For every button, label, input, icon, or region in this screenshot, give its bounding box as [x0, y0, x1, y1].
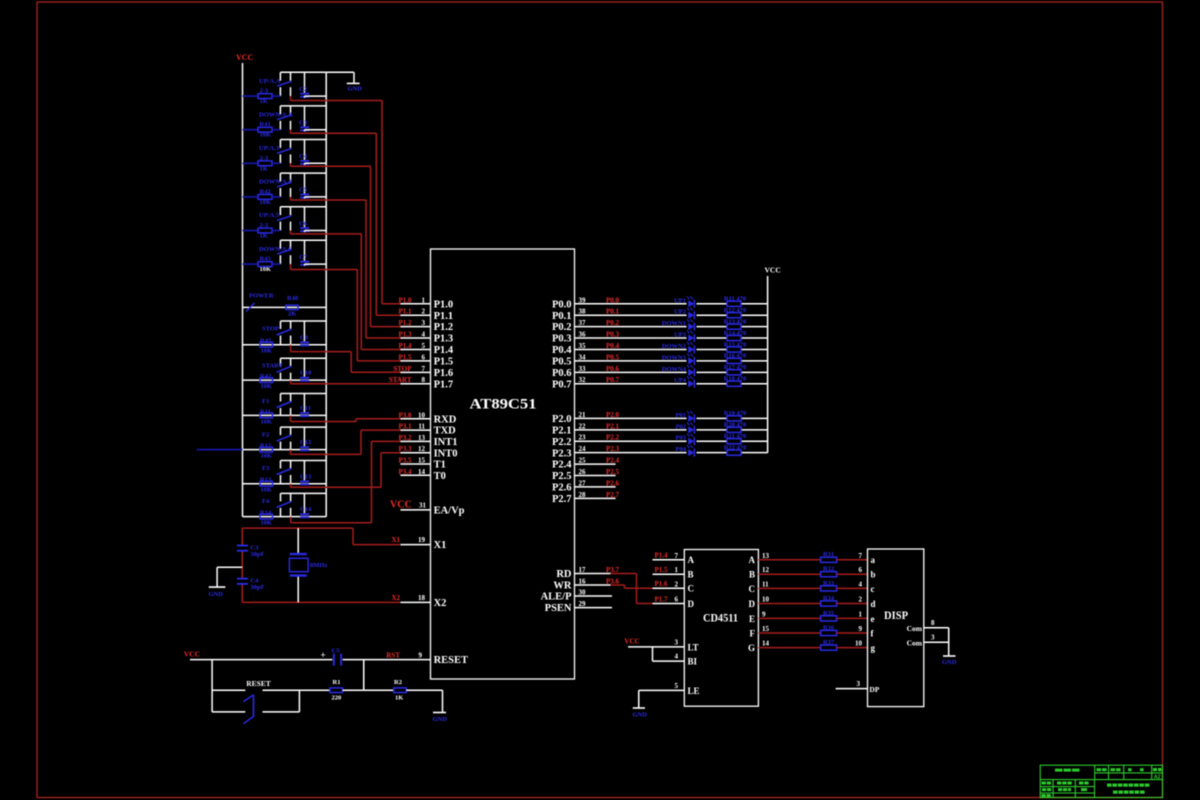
svg-text:5: 5 — [675, 682, 679, 690]
wire - P0.7 row to VCC rail — [575, 383, 768, 385]
svg-text:e: e — [871, 614, 875, 624]
wire - P2.7 stub — [575, 497, 616, 499]
svg-text:C6: C6 — [299, 220, 308, 227]
wire - red net from row 4 switch to MCU pin P1.3 — [291, 197, 404, 338]
svg-text:220: 220 — [332, 695, 342, 702]
svg-text:UP1: UP1 — [674, 297, 686, 304]
svg-text:POWER: POWER — [249, 293, 274, 300]
svg-text:P2.0: P2.0 — [552, 414, 572, 425]
wire - row1 top to ground drop — [326, 72, 354, 83]
svg-text:P1.4: P1.4 — [398, 342, 412, 350]
svg-text:RESET: RESET — [246, 679, 271, 688]
svg-text:6: 6 — [422, 353, 426, 361]
resistor R1 220 — [330, 679, 364, 702]
svg-text:2K: 2K — [288, 311, 296, 318]
svg-text:P3.2: P3.2 — [398, 434, 412, 442]
svg-text:P1.5: P1.5 — [434, 357, 454, 368]
capacitor C4 (debounce, row 3) — [299, 140, 326, 165]
svg-text:DP: DP — [869, 685, 879, 694]
capacitor C3 30pF (top) — [237, 544, 265, 558]
svg-text:10: 10 — [418, 411, 426, 419]
pin 17 RD of U1 — [556, 566, 619, 580]
svg-text:4: 4 — [675, 653, 679, 661]
pin 24 P2.3 of U1 — [552, 445, 620, 459]
wire - P0.2 row to VCC rail — [575, 326, 768, 328]
svg-text:P1.1: P1.1 — [434, 311, 454, 322]
wire - ground tap from crystal caps — [217, 567, 242, 587]
svg-text:T1: T1 — [434, 460, 446, 471]
wire - left VCC bus vertical — [242, 63, 244, 517]
svg-text:X1: X1 — [434, 540, 447, 551]
pin 36 P0.3 of U1 — [552, 331, 620, 345]
svg-text:A: A — [749, 555, 756, 565]
svg-text:3: 3 — [857, 680, 861, 688]
svg-text:P0.4: P0.4 — [552, 345, 572, 356]
svg-text:P3.5: P3.5 — [398, 457, 412, 465]
svg-text:P3.3: P3.3 — [398, 445, 412, 453]
wire - P0.0 row to VCC rail — [575, 303, 768, 305]
svg-text:INT0: INT0 — [434, 448, 458, 459]
svg-text:8: 8 — [422, 376, 426, 384]
wire - red net from row 10 (F1) to MCU — [291, 415, 403, 421]
resistor R22 470 — [724, 444, 747, 455]
svg-text:VCC: VCC — [236, 53, 254, 62]
pin 32 P0.7 of U1 — [552, 376, 620, 390]
svg-text:F3: F3 — [262, 465, 270, 472]
driver U2 CD4511 body — [684, 550, 758, 707]
pin 38 P0.1 of U1 — [552, 308, 620, 322]
svg-text:E: E — [749, 614, 755, 624]
pin 2 segment d of DISP — [859, 596, 876, 609]
svg-text:P1.6: P1.6 — [654, 580, 668, 588]
svg-text:C11: C11 — [300, 405, 311, 412]
svg-text:C13: C13 — [300, 473, 312, 480]
resistor R11 470 — [724, 296, 746, 307]
switch S3 (UP/A.3) with pull-up resistor and debounce cap, ladder row 3 — [243, 140, 327, 173]
pin 18 X2 of U1 — [391, 594, 446, 609]
LED D6 (DOWN3) — [662, 353, 695, 365]
wire - red net from row 2 switch to MCU pin P1.1 — [291, 130, 404, 316]
pin 7 segment a of DISP — [859, 552, 876, 565]
svg-text:b: b — [871, 570, 876, 580]
svg-text:Com: Com — [907, 638, 923, 647]
switch S1 (UP/A.A) with pull-up resistor and debounce cap, ladder row 1 — [243, 72, 327, 105]
wire - P2.3 row to VCC rail — [575, 452, 768, 454]
svg-text:P1.2: P1.2 — [398, 319, 412, 327]
svg-text:18: 18 — [418, 594, 426, 602]
pin 10 RXD of U1 — [398, 411, 456, 425]
svg-text:START: START — [262, 363, 284, 370]
pin 15 F output of U2 — [750, 625, 770, 638]
LED D8 (UP4) — [674, 376, 694, 388]
ground symbol (crystal) — [209, 587, 226, 598]
ground symbol (CD4511 LE) — [633, 708, 648, 719]
pin 11 C output of U2 — [749, 580, 770, 593]
switch S6 (DOWN/A.6) with pull-up resistor and debounce cap, ladder row 6 — [243, 240, 327, 273]
wire - crystal loop left vertical with caps — [241, 528, 243, 602]
svg-text:P2.5: P2.5 — [552, 471, 572, 482]
svg-text:R11: R11 — [260, 408, 271, 415]
wire - P2.5 stub — [575, 475, 616, 477]
op-amp n/a - MCU U1 AT89C51 body — [431, 249, 575, 679]
svg-text:Com: Com — [907, 624, 923, 633]
svg-text:10: 10 — [762, 596, 770, 604]
resistor R34 (segment d) — [758, 595, 867, 606]
LED D10 (P02) — [676, 422, 695, 434]
svg-text:30: 30 — [579, 589, 587, 597]
svg-text:1: 1 — [675, 566, 679, 574]
svg-text:ALE/P: ALE/P — [541, 592, 573, 603]
svg-text:7: 7 — [675, 552, 679, 560]
svg-text:2: 2 — [675, 580, 679, 588]
svg-text:GND: GND — [348, 86, 363, 93]
svg-text:R40: R40 — [287, 295, 298, 302]
svg-text:12: 12 — [418, 445, 426, 453]
svg-text:3: 3 — [422, 319, 426, 327]
svg-text:P2.7: P2.7 — [552, 494, 572, 505]
svg-text:1: 1 — [859, 610, 863, 618]
pin 13 A output of U2 — [749, 552, 770, 565]
svg-text:P1.2: P1.2 — [434, 322, 454, 333]
svg-text:7: 7 — [422, 365, 426, 373]
LED D9 (P01) — [676, 411, 695, 423]
svg-text:5: 5 — [422, 342, 426, 350]
resistor R35 (segment e) — [758, 610, 867, 621]
wire - P2.1 row to VCC rail — [575, 429, 768, 431]
svg-text:RXD: RXD — [434, 414, 457, 425]
wire - P0.4 row to VCC rail — [575, 348, 768, 350]
wire - red net from row 3 switch to MCU pin P1.2 — [291, 163, 404, 326]
svg-text:VCC: VCC — [624, 638, 639, 646]
svg-text:DOWN/A.A: DOWN/A.A — [259, 111, 293, 118]
switch F1 with resistor R11 and capacitor C11, ladder row 10 — [243, 394, 327, 426]
pin 28 P2.7 of U1 — [552, 491, 620, 505]
resistor R37 (segment g) — [758, 639, 867, 650]
svg-text:C7: C7 — [299, 254, 308, 261]
wire - junction up to RST line — [364, 660, 394, 691]
svg-text:D: D — [749, 599, 756, 609]
pin 27 P2.6 of U1 — [552, 479, 620, 493]
power label VCC (LED rail) — [765, 266, 781, 275]
wire - red net from row 13 (F4) to MCU — [291, 441, 403, 522]
capacitor C5 (electrolytic, reset) — [321, 648, 343, 666]
svg-text:R14: R14 — [260, 510, 272, 517]
svg-text:C4: C4 — [299, 153, 308, 160]
svg-text:DOWN3: DOWN3 — [662, 354, 687, 361]
pin 21 P2.0 of U1 — [552, 411, 620, 425]
svg-text:P1.5: P1.5 — [398, 353, 412, 361]
pin 33 P0.6 of U1 — [552, 365, 620, 379]
pin 4 P1.3 of U1 — [398, 331, 453, 345]
wire - crystal loop bottom (red) to X2 pin 18 — [242, 601, 400, 603]
ground symbol (top of ladder) — [347, 83, 362, 92]
capacitor C12 (row 11) — [300, 427, 311, 451]
capacitor C13 (row 12) — [300, 461, 312, 486]
svg-text:10K: 10K — [261, 487, 273, 494]
svg-text:P3.1: P3.1 — [398, 423, 412, 431]
pin 9 RESET of U1 — [419, 652, 469, 667]
svg-text:DOWN1: DOWN1 — [662, 320, 686, 327]
svg-text:R45: R45 — [260, 338, 272, 345]
svg-text:RD: RD — [556, 569, 572, 580]
wire - X1 branch to pin 19 — [353, 528, 400, 545]
svg-text:9: 9 — [762, 610, 766, 618]
pin 12 INT0 of U1 — [398, 445, 457, 459]
pin 7 P1.6 of U1 — [393, 365, 453, 379]
svg-text:VCC: VCC — [765, 266, 781, 275]
pin 5 LE of U2 — [639, 682, 700, 708]
pin 16 WR of U1 — [553, 578, 619, 592]
svg-text:P1.3: P1.3 — [398, 331, 412, 339]
resistor R2 1K — [394, 679, 443, 702]
wire - red net from row 1 switch to MCU pin P1.0 — [291, 96, 404, 304]
svg-text:10K: 10K — [261, 418, 273, 425]
LED D4 (UP3) — [674, 331, 694, 343]
svg-text:P03: P03 — [676, 435, 687, 442]
wire - red net from row 11 (F2) to MCU — [291, 430, 403, 454]
pin 3 Com of DISP (second) — [907, 634, 949, 648]
ground symbol (DISP common) — [942, 656, 957, 666]
svg-text:15: 15 — [762, 625, 770, 633]
svg-text:8: 8 — [931, 619, 935, 627]
capacitor C7 (debounce, row 6) — [299, 240, 326, 265]
svg-text:DOWN/A.6: DOWN/A.6 — [259, 246, 292, 253]
LED D7 (DOWN4) — [662, 365, 695, 377]
switch STOP with resistor R45 and capacitor C9, ladder row 8 — [243, 321, 327, 355]
svg-text:11: 11 — [762, 580, 769, 588]
pin 34 P0.5 of U1 — [552, 353, 620, 367]
svg-text:10K: 10K — [261, 348, 273, 355]
resistor R36 (segment f) — [758, 624, 867, 635]
svg-text:10K: 10K — [261, 453, 273, 460]
svg-text:13: 13 — [762, 552, 770, 560]
svg-text:C2: C2 — [299, 86, 307, 93]
svg-text:B: B — [749, 570, 755, 580]
wire - Com pins to ground — [948, 628, 950, 656]
svg-text:C10: C10 — [300, 370, 311, 377]
switch S4 (DOWN/A.4) with pull-up resistor and debounce cap, ladder row 4 — [243, 173, 327, 206]
svg-text:16: 16 — [579, 578, 587, 586]
svg-text:15: 15 — [418, 457, 426, 465]
svg-text:P0.1: P0.1 — [552, 311, 572, 322]
svg-text:P1.4: P1.4 — [434, 345, 454, 356]
svg-text:P1.3: P1.3 — [434, 334, 454, 345]
svg-text:1K: 1K — [395, 695, 403, 702]
svg-text:GND: GND — [942, 659, 957, 666]
LED D2 (UP2) — [674, 308, 694, 320]
svg-text:P2.3: P2.3 — [552, 448, 572, 459]
svg-text:UP/A.5: UP/A.5 — [259, 212, 280, 219]
pin 6 P1.5 of U1 — [398, 353, 453, 367]
pin 9 E output of U2 — [749, 610, 766, 623]
capacitor C14 (row 13) — [300, 493, 312, 518]
svg-text:30pF: 30pF — [250, 584, 264, 591]
wire - P2.2 row to VCC rail — [575, 440, 768, 442]
svg-text:GND: GND — [209, 591, 224, 598]
svg-text:13: 13 — [418, 434, 426, 442]
svg-text:TXD: TXD — [434, 426, 457, 437]
svg-text:A2: A2 — [1154, 774, 1161, 780]
pin 4 BI of U2 — [653, 647, 698, 667]
svg-text:4: 4 — [422, 331, 426, 339]
pin 15 T1 of U1 — [398, 457, 445, 471]
svg-text:4: 4 — [859, 580, 863, 588]
pin 1 segment e of DISP — [859, 610, 875, 623]
pin 3 P1.2 of U1 — [398, 319, 453, 333]
svg-text:6: 6 — [859, 566, 863, 574]
pin 4 segment c of DISP — [859, 580, 875, 593]
pin 1 B input of U2 — [653, 566, 694, 580]
wire - P0.6 row to VCC rail — [575, 371, 768, 373]
ground symbol (reset) — [433, 713, 448, 724]
svg-text:P1.4: P1.4 — [654, 552, 668, 560]
power label VCC (ladder supply) — [236, 53, 254, 62]
svg-text:F: F — [750, 628, 756, 638]
resistor R32 (segment b) — [758, 566, 867, 577]
wire - P0.3 row to VCC rail — [575, 337, 768, 339]
svg-text:UP2: UP2 — [674, 309, 686, 316]
svg-text:F4: F4 — [262, 498, 270, 505]
svg-text:CD4511: CD4511 — [703, 613, 738, 625]
capacitor C9 (row 8) — [300, 321, 309, 346]
pin 22 P2.1 of U1 — [552, 422, 620, 436]
pin 2 C input of U2 — [653, 580, 695, 594]
capacitor C3 (debounce, row 2) — [299, 106, 326, 131]
svg-text:P02: P02 — [676, 423, 686, 430]
svg-text:UP3: UP3 — [674, 332, 687, 339]
svg-text:RST: RST — [386, 652, 400, 660]
svg-text:C14: C14 — [300, 506, 312, 513]
wire - LED VCC rail vertical — [767, 276, 769, 453]
svg-text:P1.0: P1.0 — [434, 299, 454, 310]
svg-text:P1.0: P1.0 — [398, 296, 412, 304]
capacitor C4 30pF (bottom) — [237, 577, 265, 591]
svg-text:10K: 10K — [261, 520, 273, 527]
svg-text:P0.5: P0.5 — [552, 357, 572, 368]
svg-text:P2.1: P2.1 — [552, 425, 572, 436]
capacitor C5 (debounce, row 4) — [299, 173, 326, 198]
svg-text:R2: R2 — [394, 679, 402, 686]
svg-text:UP/A.A: UP/A.A — [259, 78, 281, 85]
pin 13 INT1 of U1 — [398, 434, 457, 448]
wire - P2.6 stub — [575, 486, 616, 488]
push-button RESET — [212, 679, 330, 724]
wire - red net from row 9 (START) to MCU — [291, 380, 403, 384]
svg-text:DOWN2: DOWN2 — [662, 343, 686, 350]
svg-text:P0.0: P0.0 — [552, 299, 572, 310]
svg-text:RESET: RESET — [434, 655, 468, 666]
svg-text:X2: X2 — [391, 594, 400, 602]
svg-text:C5: C5 — [332, 648, 341, 655]
wire - red net WR/P3.6 to CD4511 C input — [611, 585, 653, 588]
display DISP body — [868, 549, 924, 707]
svg-text:P0.7: P0.7 — [552, 379, 572, 390]
resistor R21 470 — [724, 433, 747, 444]
svg-text:T0: T0 — [434, 471, 446, 482]
svg-text:P1.6: P1.6 — [434, 368, 454, 379]
svg-text:29: 29 — [579, 600, 587, 608]
svg-text:9: 9 — [419, 652, 423, 660]
svg-text:F1: F1 — [262, 398, 269, 405]
wire - red net from row 5 switch to MCU pin P1.4 — [291, 231, 404, 350]
LED D3 (DOWN1) — [662, 319, 695, 331]
pin 8 P1.7 of U1 — [389, 376, 453, 390]
pin 11 TXD of U1 — [398, 423, 456, 437]
svg-text:INT1: INT1 — [434, 437, 458, 448]
pin 5 P1.4 of U1 — [398, 342, 453, 356]
wire - reset top line VCC to C5 to RESET pin — [190, 659, 431, 661]
pin 10 D output of U2 — [749, 596, 770, 609]
pin 39 P0.0 of U1 — [552, 296, 620, 310]
svg-text:P0.3: P0.3 — [552, 334, 572, 345]
power label VCC (CD4511) — [624, 638, 639, 646]
svg-text:P01: P01 — [676, 412, 686, 419]
pin 8 Com of DISP — [907, 619, 949, 633]
svg-text:X2: X2 — [434, 598, 447, 609]
svg-text:+: + — [321, 650, 326, 660]
pin 35 P0.4 of U1 — [552, 342, 620, 356]
svg-text:P3.0: P3.0 — [398, 411, 412, 419]
svg-text:P04: P04 — [676, 446, 687, 453]
pin 2 P1.1 of U1 — [398, 308, 453, 322]
pin 3 LT of U2 — [628, 639, 699, 653]
switch F3 with resistor R13 and capacitor C13, ladder row 12 — [243, 461, 327, 494]
svg-text:PSEN: PSEN — [545, 603, 572, 614]
resistor R33 (segment c) — [758, 580, 867, 591]
pin 19 X1 of U1 — [391, 536, 446, 551]
pin 6 segment b of DISP — [859, 566, 876, 579]
capacitor C2 (debounce, row 1) — [299, 72, 326, 97]
svg-text:VCC: VCC — [390, 499, 412, 510]
svg-text:GND: GND — [433, 716, 448, 723]
pin 6 D input of U2 — [653, 595, 695, 609]
svg-text:LT: LT — [688, 642, 699, 652]
resistor R12 470 — [724, 307, 747, 318]
pin 3 DP of DISP — [836, 680, 880, 694]
node RST label — [386, 652, 400, 660]
svg-text:START: START — [389, 376, 412, 384]
resistor R15 470 — [724, 341, 747, 352]
title block text marks — [1042, 768, 1162, 797]
resistor R19 470 — [724, 410, 747, 421]
svg-text:g: g — [871, 643, 876, 653]
wire - left vertical of reset button box — [211, 660, 213, 712]
wire - red net from row 8 (STOP) to MCU — [291, 345, 403, 373]
resistor R18 470 — [724, 376, 747, 387]
svg-text:UP/A.3: UP/A.3 — [259, 145, 280, 152]
switch POWER with resistor R40, ladder row 7 — [243, 293, 327, 318]
resistor R16 470 — [724, 353, 747, 364]
svg-text:BI: BI — [688, 657, 698, 667]
wire - red net from row 12 (F3) to MCU — [291, 453, 403, 488]
svg-text:STOP: STOP — [262, 326, 279, 333]
pin 23 P2.2 of U1 — [552, 434, 620, 448]
pin 37 P0.2 of U1 — [552, 319, 620, 333]
svg-text:AT89C51: AT89C51 — [470, 397, 537, 413]
svg-text:19: 19 — [418, 536, 426, 544]
wire - crystal loop top (red) — [242, 527, 353, 529]
svg-text:2: 2 — [859, 596, 863, 604]
wire - P0.5 row to VCC rail — [575, 360, 768, 362]
svg-text:WR: WR — [553, 581, 572, 592]
svg-text:R42: R42 — [260, 373, 271, 380]
resistor R13 470 — [724, 318, 747, 329]
resistor R31 (segment a) — [758, 551, 867, 562]
svg-text:6: 6 — [675, 596, 679, 604]
LED D5 (DOWN2) — [662, 342, 695, 354]
resistor R14 470 — [724, 330, 747, 341]
capacitor C11 (row 10) — [300, 394, 311, 418]
